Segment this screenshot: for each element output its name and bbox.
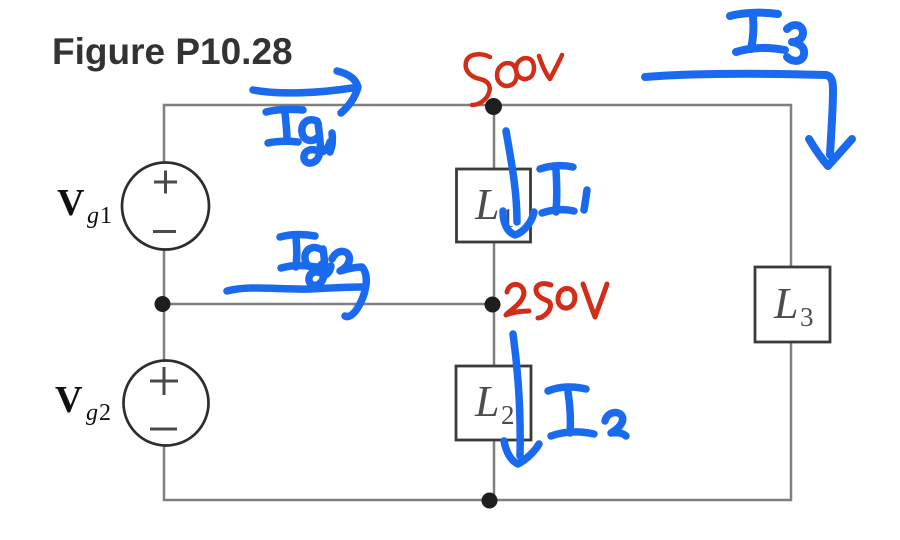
svg-text:Figure P10.28: Figure P10.28: [52, 31, 293, 72]
annotation: current arrow Ig1: [253, 71, 358, 113]
svg-text:g: g: [87, 203, 99, 229]
wire: middle horizontal from sources node to 250V node: [164, 303, 494, 306]
svg-text:L: L: [474, 180, 499, 229]
annotation: label Ig1: [266, 109, 332, 163]
svg-text:2: 2: [501, 400, 515, 430]
inductor L3: [755, 267, 830, 342]
voltage source Vg2: [124, 361, 209, 446]
annotation: label I1: [540, 166, 587, 213]
svg-text:3: 3: [800, 302, 814, 332]
annotation: current arrow I3: [645, 74, 852, 166]
node dot: left middle node: [155, 296, 171, 312]
label Vg2: [55, 379, 111, 426]
node dot: 250V node: [485, 297, 501, 313]
label Vg1: [57, 182, 112, 229]
inductor L1: [457, 169, 531, 242]
annotation: current arrow I2: [504, 334, 539, 464]
wire: middle vertical branch: [493, 105, 496, 500]
voltage source Vg1: [122, 163, 209, 250]
svg-text:L: L: [474, 377, 499, 426]
node dot: bottom node: [482, 493, 498, 509]
annotation: voltage 500v (red): [466, 54, 562, 105]
svg-text:L: L: [773, 279, 798, 328]
svg-text:g: g: [86, 400, 98, 426]
annotation: current arrow I1: [503, 131, 534, 235]
node dot: top 500V node: [485, 98, 502, 115]
annotation: current arrow Ig2: [227, 287, 362, 291]
svg-text:V: V: [55, 379, 83, 421]
annotation: voltage 250V (red): [506, 284, 607, 318]
annotation: label I3: [730, 13, 804, 61]
annotation: label Ig2: [280, 235, 366, 317]
figure caption: [52, 31, 293, 72]
svg-text:2: 2: [99, 400, 111, 426]
inductor L2: [456, 366, 531, 440]
svg-text:1: 1: [100, 203, 112, 229]
svg-text:V: V: [57, 182, 85, 224]
wire: outer loop (left, top, right, bottom): [164, 105, 791, 500]
annotation: label I2: [548, 387, 626, 436]
